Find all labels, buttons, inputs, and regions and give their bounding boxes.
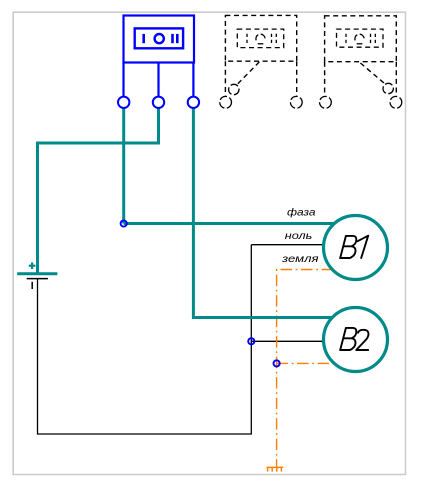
phantom switch position 1 (dashed) bbox=[220, 15, 302, 108]
switch S1 body bbox=[124, 16, 195, 97]
svg-text:ноль: ноль bbox=[285, 231, 313, 242]
wire: neutral black branch to motor B2 bbox=[251, 340, 325, 342]
node C: earth junction bbox=[274, 360, 280, 366]
battery positive plate bbox=[17, 272, 57, 275]
switch terminal stubs bbox=[122, 63, 124, 97]
phantom switch position 2 (dashed) bbox=[320, 16, 402, 108]
wire: earth orange branch to motor B2 bbox=[277, 362, 335, 364]
battery minus tick bbox=[31, 282, 33, 289]
wire: neutral black to motor B1 bbox=[251, 244, 327, 246]
wire: earth orange dash-dot from motor B1 left and down bbox=[277, 270, 333, 468]
wire: phase teal horizontal to motor B1 bbox=[124, 222, 334, 225]
switch S1 face plate bbox=[135, 28, 183, 48]
battery negative plate bbox=[27, 278, 48, 280]
motor B2 bbox=[324, 308, 388, 372]
switch terminal circles bbox=[118, 97, 199, 108]
ground symbol bbox=[267, 467, 284, 471]
switch position II bbox=[171, 34, 174, 43]
svg-text:фаза: фаза bbox=[287, 208, 316, 219]
battery plus sign bbox=[29, 262, 36, 269]
svg-text:земля: земля bbox=[281, 254, 320, 265]
motor B1 bbox=[324, 216, 388, 280]
node A: phase junction bbox=[121, 220, 127, 226]
switch position I bbox=[142, 34, 145, 43]
wire: neutral black from battery down, along bottom, up right side bbox=[38, 245, 252, 434]
node B: neutral junction bbox=[248, 338, 254, 344]
switch position O bbox=[155, 34, 164, 43]
wire: teal from middle switch terminal down, left, down to battery + bbox=[38, 108, 159, 274]
wire: phase teal from left switch terminal down to node A bbox=[122, 108, 125, 224]
wire: teal from right switch terminal down then right to motor B2 bbox=[193, 108, 334, 318]
